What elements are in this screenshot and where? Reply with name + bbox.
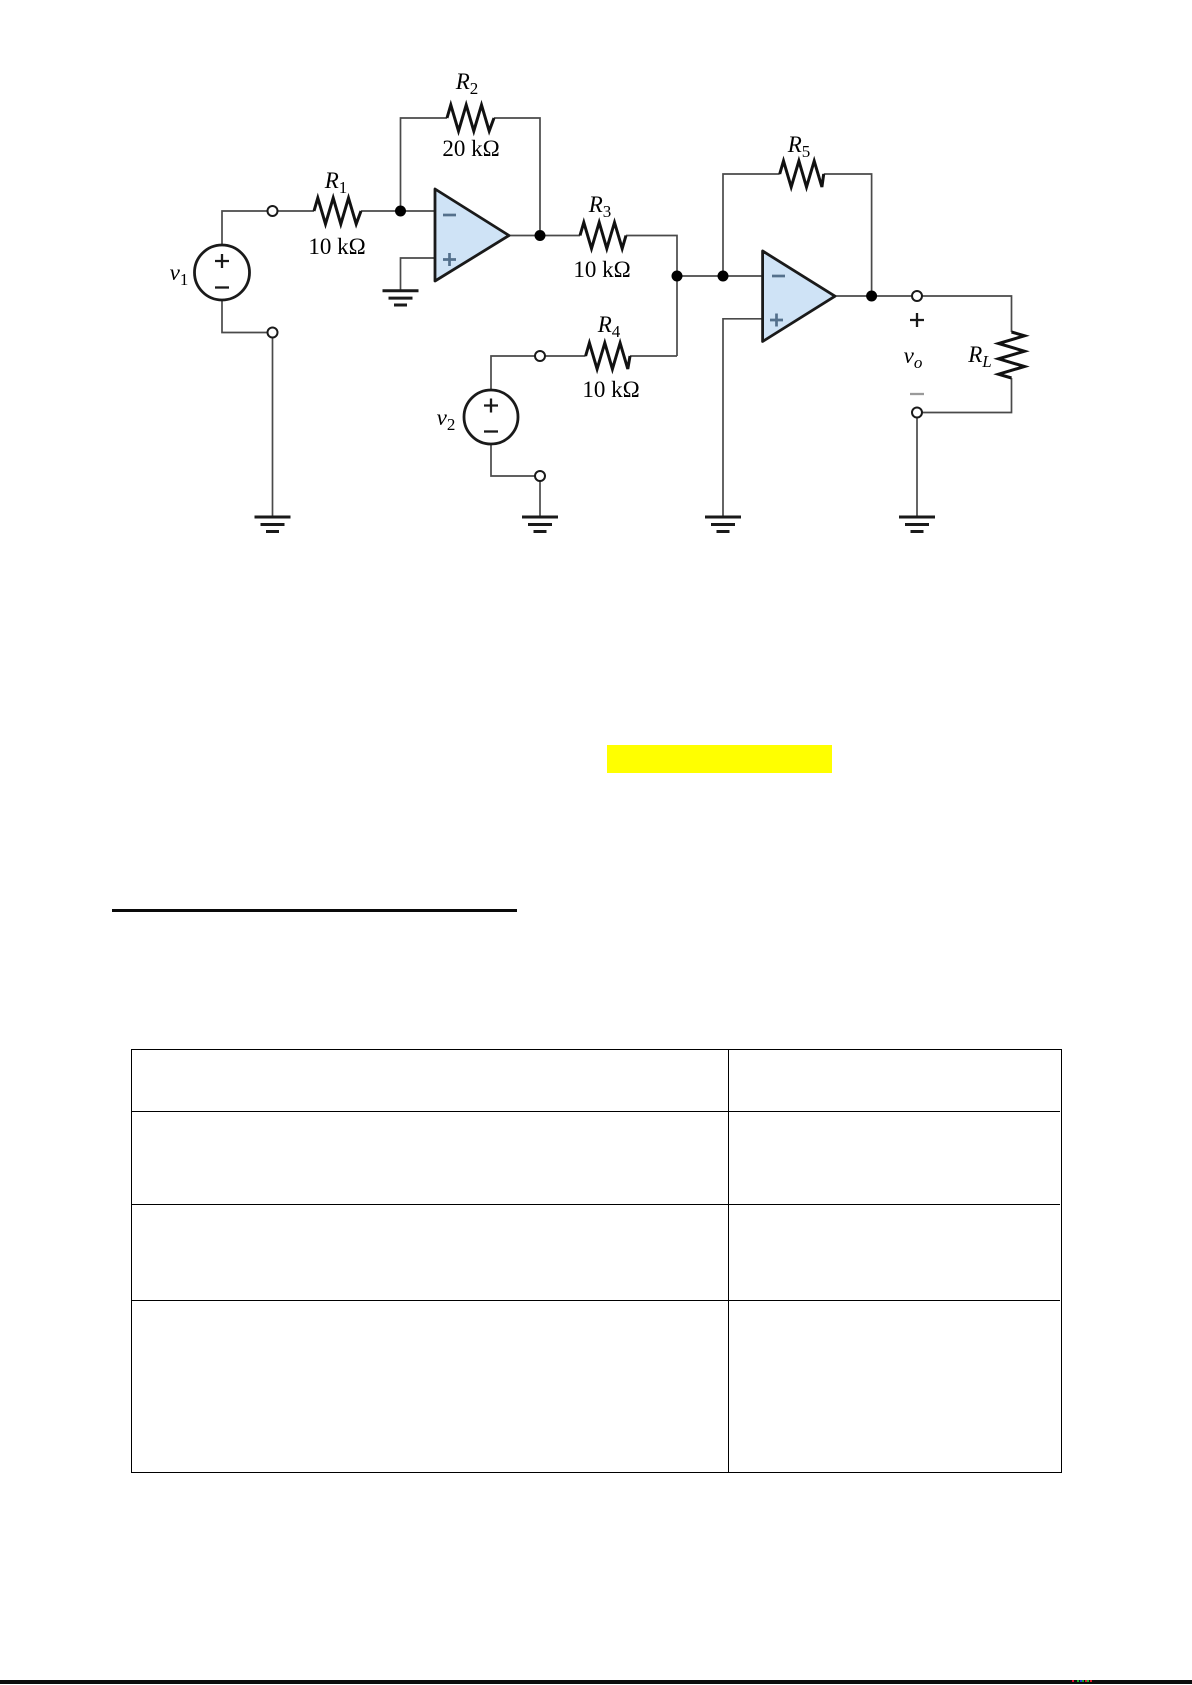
- svg-text:RL: RL: [967, 342, 992, 371]
- svg-text:v2: v2: [437, 405, 456, 434]
- svg-text:R5: R5: [787, 132, 811, 161]
- svg-text:20 kΩ: 20 kΩ: [442, 136, 499, 161]
- svg-text:R3: R3: [588, 192, 612, 221]
- svg-text:R2: R2: [455, 69, 479, 98]
- svg-text:R4: R4: [597, 312, 621, 341]
- svg-text:10 kΩ: 10 kΩ: [582, 377, 639, 402]
- svg-text:v1: v1: [170, 260, 189, 289]
- svg-text:10 kΩ: 10 kΩ: [308, 234, 365, 259]
- svg-text:vo: vo: [904, 343, 923, 372]
- svg-text:R1: R1: [324, 168, 348, 197]
- svg-text:10 kΩ: 10 kΩ: [573, 257, 630, 282]
